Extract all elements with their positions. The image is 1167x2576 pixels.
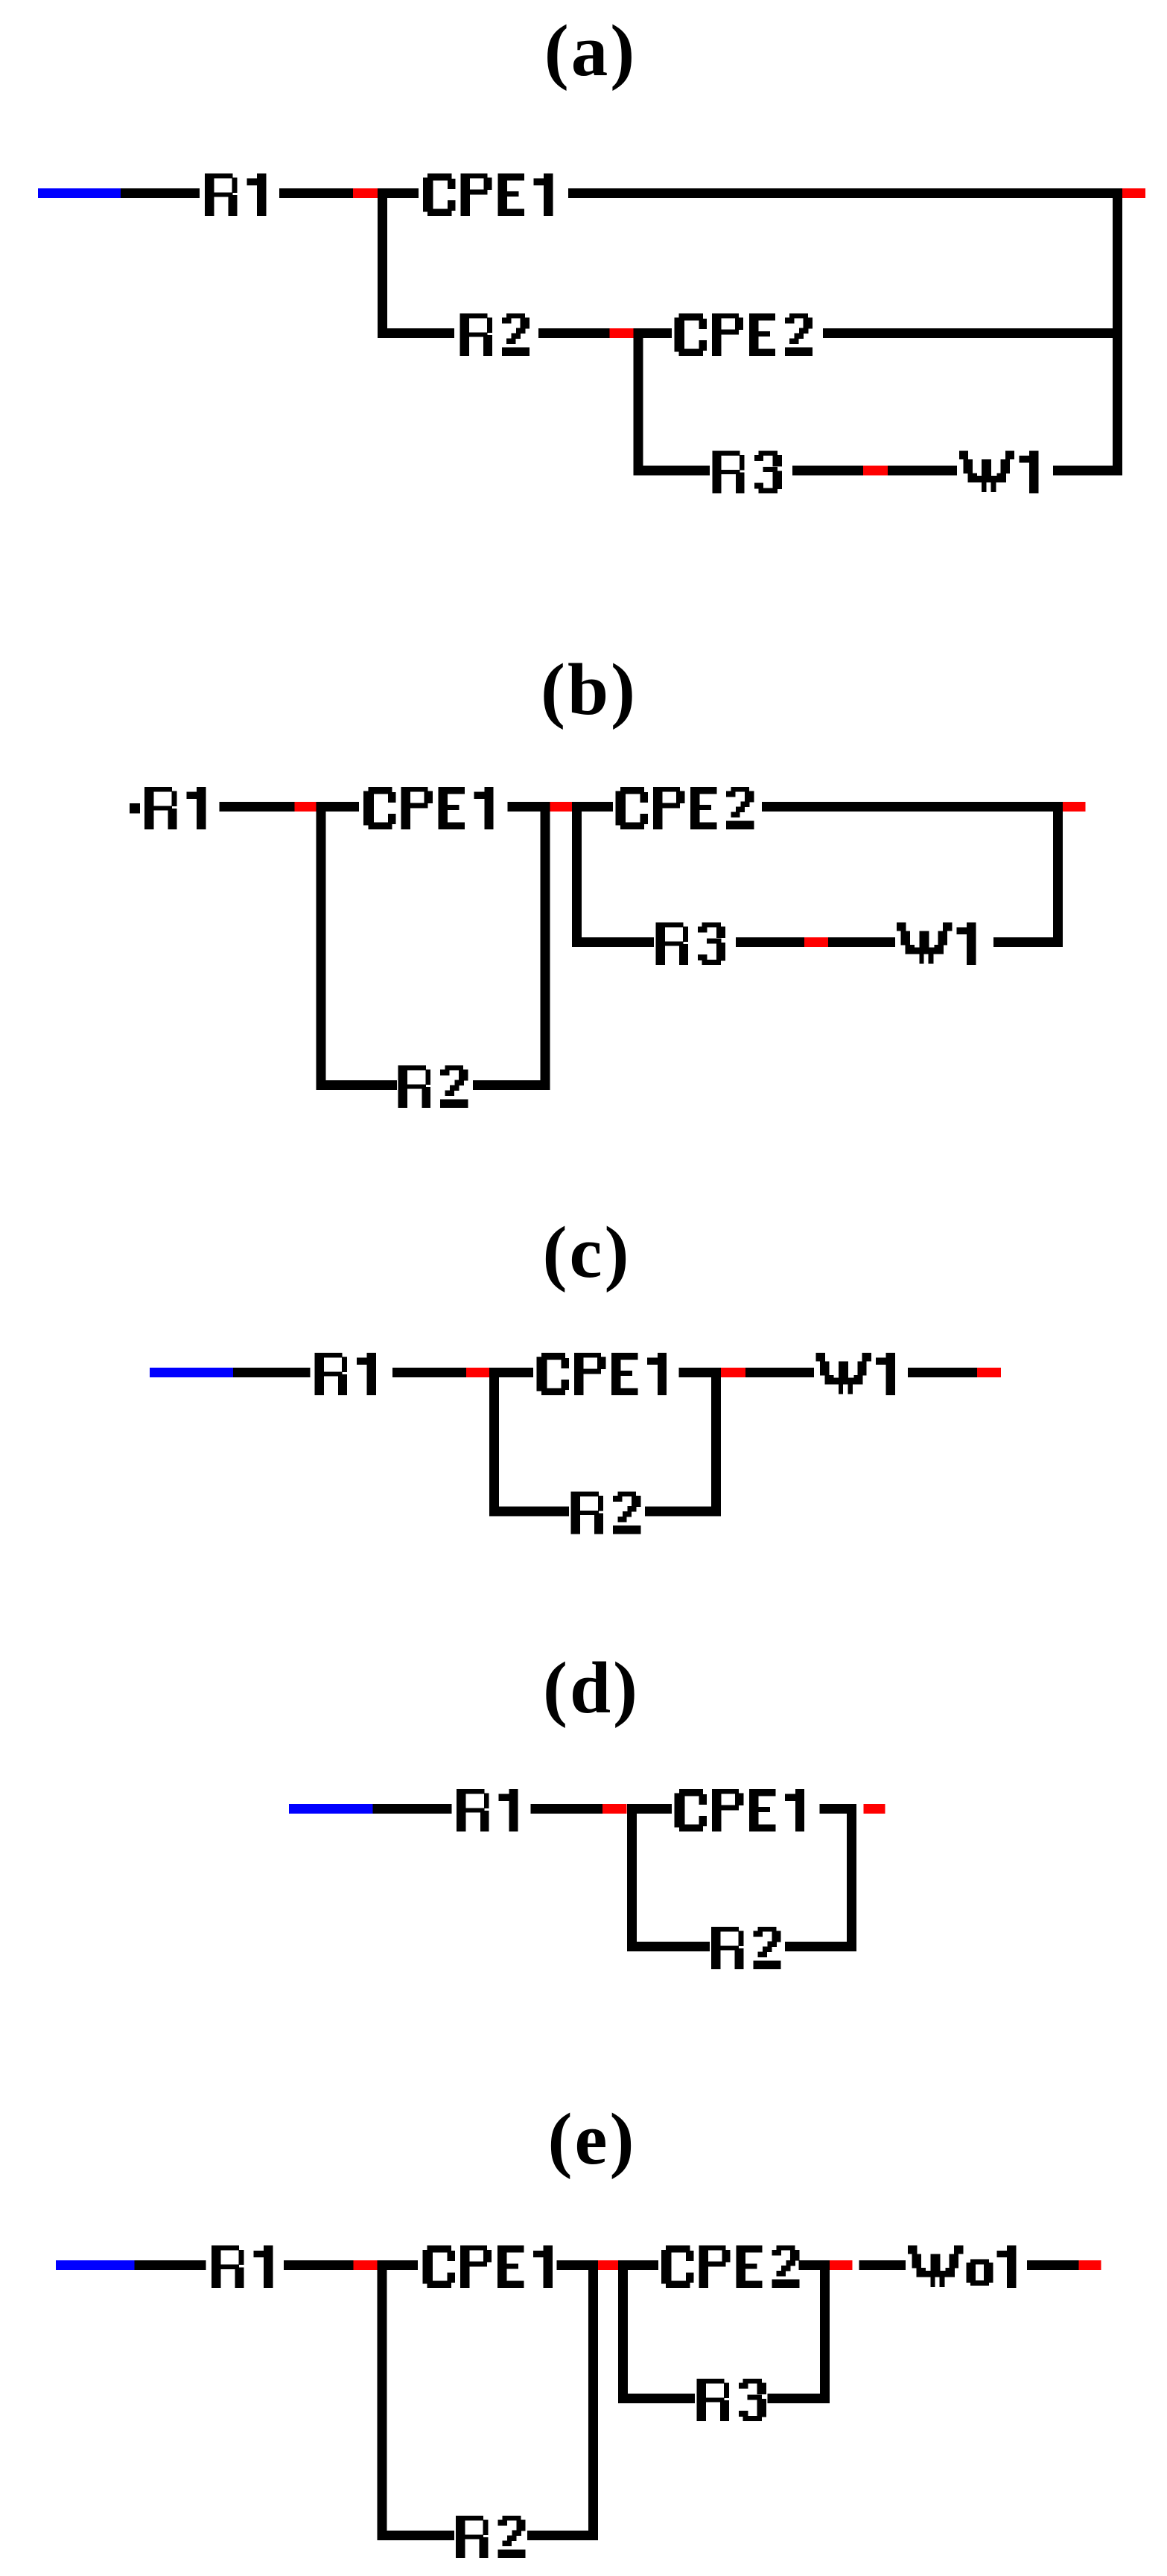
resistor R2 — [711, 1927, 781, 1969]
wire — [643, 328, 672, 338]
wire — [538, 328, 609, 338]
wire — [628, 2260, 658, 2270]
wire — [556, 2260, 588, 2270]
wire — [387, 2260, 418, 2270]
resistor R3 — [656, 922, 726, 965]
CPE element CPE1 — [675, 1789, 805, 1831]
wire — [527, 2531, 598, 2540]
resistor R2 — [571, 1492, 641, 1534]
node terminal (red) — [977, 1368, 1001, 1377]
wire — [325, 802, 359, 812]
node terminal (red) — [863, 466, 888, 476]
Warburg element W1 — [959, 451, 1039, 494]
node terminal (red) — [721, 1368, 745, 1377]
wire — [135, 2260, 206, 2270]
resistor R3 — [712, 451, 782, 494]
wire — [736, 937, 804, 947]
wire — [828, 937, 895, 947]
wire — [392, 1368, 466, 1377]
node terminal (red) — [602, 1804, 626, 1814]
junction wire — [489, 1368, 499, 1517]
terminal lead (blue) — [150, 1368, 233, 1377]
CPE element CPE2 — [616, 787, 754, 829]
resistor R1 — [314, 1353, 376, 1395]
node terminal (red) — [598, 2260, 618, 2270]
junction wire — [316, 802, 325, 1090]
Warburg element W1 — [816, 1353, 896, 1395]
wire — [820, 1804, 856, 1814]
resistor R2 — [456, 2516, 526, 2558]
junction wire — [377, 2260, 387, 2540]
terminal lead (blue) — [38, 188, 121, 198]
wire — [499, 1368, 533, 1377]
wire — [121, 188, 200, 198]
wire — [618, 2394, 695, 2403]
wire — [220, 802, 295, 812]
node terminal (red) — [295, 802, 317, 812]
wire — [643, 466, 710, 476]
wire — [745, 1368, 814, 1377]
CPE element CPE1 — [423, 173, 553, 216]
wire — [645, 1507, 721, 1517]
svg-text:(a): (a) — [544, 10, 637, 92]
svg-text:(b): (b) — [541, 649, 637, 730]
wire — [489, 1507, 569, 1517]
wire — [888, 466, 957, 476]
wire — [637, 1804, 672, 1814]
junction wire — [633, 328, 643, 476]
wire — [284, 2260, 354, 2270]
svg-text:(e): (e) — [548, 2099, 637, 2180]
wire — [473, 1080, 550, 1090]
resistor R1 — [144, 787, 206, 829]
node terminal (red) — [1063, 802, 1086, 812]
wire — [785, 1942, 856, 1951]
junction wire — [540, 802, 550, 1090]
svg-text:(d): (d) — [543, 1648, 640, 1729]
resistor R1 — [212, 2245, 273, 2288]
resistor R1 — [205, 173, 267, 216]
node terminal (red) — [466, 1368, 489, 1377]
wire — [508, 802, 541, 812]
wire — [233, 1368, 310, 1377]
wire — [792, 466, 863, 476]
wire — [1027, 2260, 1078, 2270]
node terminal (red) — [830, 2260, 853, 2270]
wire — [568, 188, 1122, 198]
wire — [279, 188, 353, 198]
CPE element CPE1 — [423, 2245, 553, 2288]
CPE element CPE2 — [661, 2245, 800, 2288]
node terminal (red) — [1078, 2260, 1101, 2270]
wire — [859, 2260, 906, 2270]
wire — [823, 328, 1113, 338]
junction wire — [588, 2260, 598, 2540]
node terminal (red) — [1122, 188, 1145, 198]
junction wire — [627, 1804, 637, 1951]
wire — [373, 1804, 452, 1814]
node terminal (red) — [354, 2260, 378, 2270]
node terminal (red) — [863, 1804, 885, 1814]
svg-text:(c): (c) — [543, 1212, 632, 1293]
wire — [378, 328, 454, 338]
terminal lead (blue) — [56, 2260, 135, 2270]
wire — [762, 802, 1063, 812]
wire — [377, 2531, 454, 2540]
wire — [627, 1942, 710, 1951]
junction wire — [572, 802, 582, 947]
wire — [531, 1804, 602, 1814]
junction wire — [378, 188, 387, 338]
junction wire — [820, 2260, 830, 2403]
wire — [767, 2394, 830, 2403]
wire — [679, 1368, 720, 1377]
terminal lead (blue) — [289, 1804, 372, 1814]
junction wire — [618, 2260, 628, 2403]
wire — [993, 937, 1063, 947]
resistor R2 — [460, 313, 530, 356]
Warburg element W1 — [897, 922, 976, 965]
wire — [387, 188, 419, 198]
CPE element CPE1 — [537, 1353, 667, 1395]
node terminal (red) — [609, 328, 633, 338]
wire — [1053, 466, 1113, 476]
junction wire (right bus) — [1113, 188, 1122, 476]
wire — [572, 937, 654, 947]
resistor R2 — [398, 1065, 468, 1108]
wire — [316, 1080, 397, 1090]
wire — [908, 1368, 977, 1377]
resistor R3 — [696, 2379, 766, 2421]
wire — [582, 802, 613, 812]
junction wire — [711, 1368, 721, 1517]
junction wire (right) — [1053, 802, 1063, 947]
node terminal (red) — [353, 188, 378, 198]
Warburg element Wo1 — [908, 2245, 1017, 2288]
node terminal (red) — [804, 937, 828, 947]
junction wire — [847, 1804, 856, 1951]
resistor R1 — [457, 1789, 518, 1831]
CPE element CPE1 — [363, 787, 494, 829]
CPE element CPE2 — [674, 313, 813, 356]
wire — [799, 2260, 821, 2270]
node terminal (red) — [550, 802, 572, 812]
node dot — [130, 803, 140, 814]
